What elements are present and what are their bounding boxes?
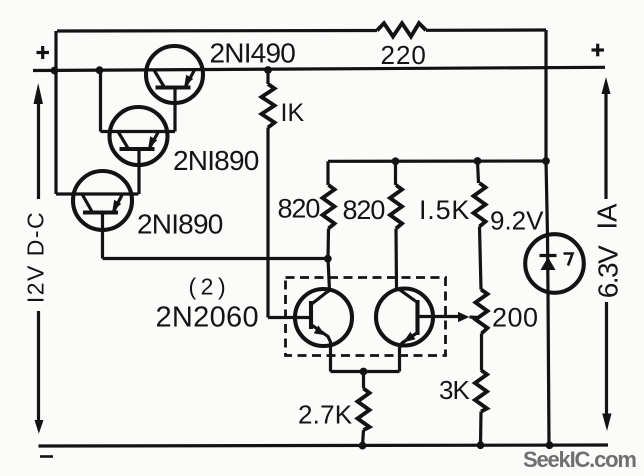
wire main + rail (33, 67, 605, 70)
wire zener branch lower (548, 293, 549, 445)
arrow left up (34, 83, 44, 199)
potentiometer 200 (418, 290, 488, 371)
wire top rail right segment (426, 28, 546, 31)
svg-text:2NI490: 2NI490 (210, 38, 296, 69)
transistor U1a 2N2060 left (295, 289, 352, 372)
junction 820a-U1a collector (324, 255, 332, 263)
svg-text:(2): (2) (189, 274, 231, 300)
transistor Q3 2N1890 (56, 171, 139, 259)
junction bus-820b (392, 157, 400, 165)
svg-text:I2V D-C: I2V D-C (23, 211, 49, 303)
dashed box 2N2060 pair (286, 278, 446, 356)
resistor 820 second (390, 161, 402, 289)
wire zener branch upper (546, 161, 548, 235)
resistor 2.7K (358, 372, 370, 446)
resistor 3K (475, 370, 487, 445)
transistor Q2 2N1890 (101, 70, 176, 194)
svg-text:3K: 3K (439, 375, 470, 405)
resistor 1.5K (474, 161, 486, 290)
svg-text:820: 820 (278, 194, 320, 224)
plus terminal left (37, 46, 50, 59)
junction bottom rail-zener (546, 441, 554, 449)
arrow right up (602, 77, 611, 199)
wire left vertical (Q3 collector to top rail) (54, 31, 57, 194)
junction bottom rail-2.7K (359, 442, 367, 450)
junction bus-1.5K (474, 157, 482, 165)
svg-text:2N2060: 2N2060 (156, 302, 259, 334)
junction bus-zener branch (542, 157, 550, 165)
svg-text:2NI890: 2NI890 (137, 209, 223, 240)
svg-text:9.2V: 9.2V (490, 206, 544, 236)
junction emitters-2.7K (360, 368, 368, 376)
transistor Q1 2N1490 (146, 46, 203, 132)
arrow left down (35, 311, 44, 434)
plus terminal right (592, 44, 605, 57)
junction rail-1K (264, 66, 272, 74)
svg-text:220: 220 (381, 40, 427, 70)
svg-text:200: 200 (492, 303, 539, 333)
junction bottom rail-3K (477, 441, 485, 449)
resistor 220 (377, 23, 426, 36)
wire Q3 emitter horizontal (103, 257, 329, 260)
svg-text:2.7K: 2.7K (298, 400, 353, 430)
arrow right down (602, 302, 611, 431)
wire top rail with 220 resistor (57, 29, 377, 33)
svg-text:820: 820 (343, 195, 385, 225)
wire left 2N2060 collector vertical (328, 259, 330, 291)
zener diode 9.2V (525, 234, 584, 293)
svg-text:IA: IA (592, 203, 623, 230)
svg-text:I.5K: I.5K (419, 195, 470, 225)
junction rail-Q3 collector (51, 67, 59, 75)
svg-text:6.3V: 6.3V (593, 245, 624, 298)
wire right vertical from top rail to bus (544, 30, 547, 161)
wire emitters join (331, 370, 400, 373)
svg-text:2NI890: 2NI890 (173, 145, 259, 176)
wire bus (328, 159, 546, 163)
svg-text:SeekIC.com: SeekIC.com (523, 447, 636, 472)
transistor U1b 2N2060 right (376, 289, 433, 372)
resistor 820 first (323, 161, 335, 258)
svg-text:IK: IK (281, 99, 305, 127)
resistor 1K branch (262, 70, 312, 318)
junction rail-Q2 base (96, 66, 104, 74)
minus terminal left (40, 455, 53, 458)
wire bottom rail (39, 445, 609, 446)
